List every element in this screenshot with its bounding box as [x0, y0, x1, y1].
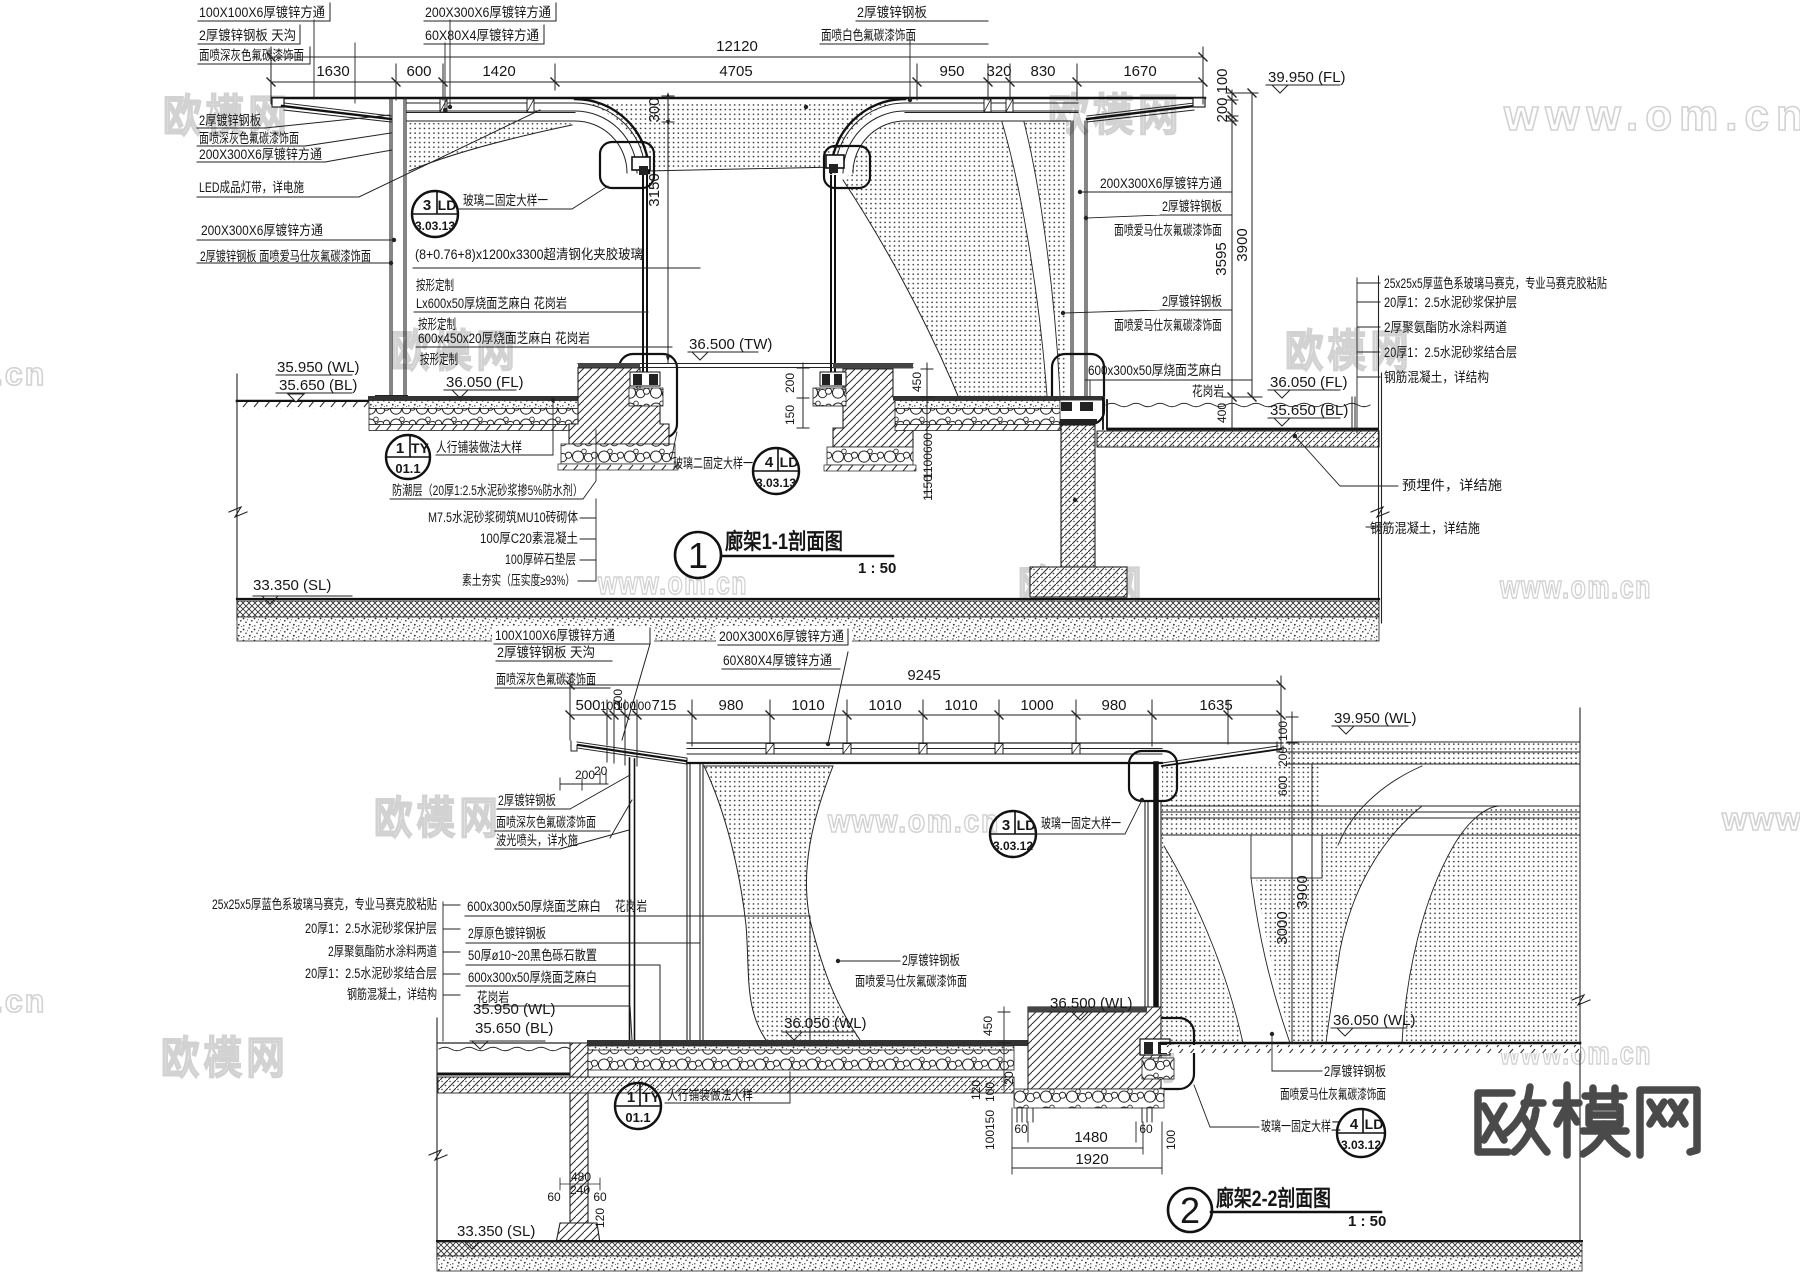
- svg-text:200X300X6厚镀锌方通: 200X300X6厚镀锌方通: [199, 146, 322, 162]
- svg-text:3.03.12: 3.03.12: [1341, 1138, 1381, 1152]
- svg-text:830: 830: [1030, 63, 1055, 80]
- svg-text:01.1: 01.1: [625, 1110, 650, 1125]
- svg-text:300: 300: [646, 97, 663, 122]
- svg-text:钢筋混凝土，详结构: 钢筋混凝土，详结构: [347, 986, 437, 1002]
- svg-text:1010: 1010: [791, 697, 824, 714]
- svg-text:200: 200: [1214, 97, 1231, 122]
- svg-text:600x300x50厚烧面芝麻白: 600x300x50厚烧面芝麻白: [467, 899, 601, 914]
- svg-text:20厚1：2.5水泥砂浆结合层: 20厚1：2.5水泥砂浆结合层: [1384, 345, 1517, 360]
- svg-text:35.650 (BL): 35.650 (BL): [279, 377, 357, 394]
- svg-text:2厚镀锌钢板: 2厚镀锌钢板: [1162, 293, 1222, 309]
- svg-text:450: 450: [981, 1016, 995, 1036]
- svg-text:450: 450: [910, 372, 924, 392]
- svg-text:钢筋混凝土，详结构: 钢筋混凝土，详结构: [1384, 369, 1489, 385]
- svg-text:按形定制: 按形定制: [420, 352, 458, 367]
- svg-text:36.050 (FL): 36.050 (FL): [1270, 374, 1348, 391]
- svg-text:50厚ø10~20黑色砾石散置: 50厚ø10~20黑色砾石散置: [468, 947, 597, 963]
- svg-text:36.050 (WL): 36.050 (WL): [1333, 1012, 1416, 1029]
- svg-text:om.cn: om.cn: [0, 983, 46, 1019]
- svg-text:3: 3: [423, 197, 431, 214]
- svg-text:花岗岩: 花岗岩: [615, 899, 647, 914]
- svg-text:玻璃二固定大样一: 玻璃二固定大样一: [673, 455, 753, 471]
- svg-text:面喷白色氟碳漆饰面: 面喷白色氟碳漆饰面: [821, 27, 916, 43]
- svg-text:1100: 1100: [921, 453, 935, 479]
- svg-text:600x300x50厚烧面芝麻白: 600x300x50厚烧面芝麻白: [468, 970, 597, 985]
- svg-text:玻璃一固定大样一: 玻璃一固定大样一: [1041, 815, 1121, 831]
- svg-text:www.om: www.om: [1721, 801, 1800, 837]
- svg-text:36.050 (WL): 36.050 (WL): [784, 1015, 867, 1032]
- svg-text:1000: 1000: [1020, 697, 1053, 714]
- svg-text:玻璃一固定大样二: 玻璃一固定大样二: [1261, 1118, 1341, 1134]
- svg-text:950: 950: [939, 63, 964, 80]
- svg-text:3150: 3150: [646, 173, 663, 206]
- svg-text:35.950 (WL): 35.950 (WL): [277, 359, 360, 376]
- svg-text:按形定制: 按形定制: [418, 317, 456, 332]
- svg-text:www.om.cn: www.om.cn: [827, 803, 1000, 839]
- svg-text:2厚镀锌钢板: 2厚镀锌钢板: [1324, 1063, 1386, 1079]
- svg-text:35.650 (BL): 35.650 (BL): [475, 1020, 553, 1037]
- svg-text:欧模网: 欧模网: [161, 1034, 289, 1083]
- svg-text:2: 2: [1180, 1190, 1200, 1231]
- svg-text:200X300X6厚镀锌方通: 200X300X6厚镀锌方通: [719, 628, 844, 644]
- svg-text:花岗岩: 花岗岩: [477, 990, 509, 1005]
- svg-text:面喷深灰色氟碳漆饰面: 面喷深灰色氟碳漆饰面: [496, 671, 596, 687]
- svg-text:TY: TY: [411, 440, 430, 456]
- svg-text:2厚聚氨酯防水涂料两道: 2厚聚氨酯防水涂料两道: [328, 944, 437, 959]
- svg-text:150: 150: [783, 405, 797, 425]
- svg-text:1: 1: [627, 1089, 635, 1106]
- svg-text:素土夯实（压实度≥93%）: 素土夯实（压实度≥93%）: [462, 573, 575, 588]
- svg-text:60: 60: [593, 1190, 607, 1204]
- svg-text:3.03.13: 3.03.13: [756, 476, 796, 490]
- svg-text:1010: 1010: [868, 697, 901, 714]
- svg-text:1920: 1920: [1075, 1151, 1108, 1168]
- svg-text:廊架2-2剖面图: 廊架2-2剖面图: [1216, 1186, 1331, 1211]
- svg-text:35.650 (BL): 35.650 (BL): [1270, 402, 1348, 419]
- svg-text:20厚1：2.5水泥砂浆保护层: 20厚1：2.5水泥砂浆保护层: [305, 921, 437, 936]
- svg-text:预埋件，详结施: 预埋件，详结施: [1402, 478, 1503, 493]
- svg-text:60: 60: [1139, 1122, 1153, 1136]
- svg-text:3.03.13: 3.03.13: [415, 219, 455, 233]
- svg-text:1480: 1480: [1074, 1129, 1107, 1146]
- svg-text:人行铺装做法大样: 人行铺装做法大样: [667, 1088, 753, 1103]
- svg-text:LED成品灯带，详电施: LED成品灯带，详电施: [199, 180, 304, 195]
- svg-text:100厚C20素混凝土: 100厚C20素混凝土: [480, 531, 578, 546]
- svg-text:100: 100: [983, 1130, 997, 1150]
- svg-text:面喷爱马仕灰氟碳漆饰面: 面喷爱马仕灰氟碳漆饰面: [855, 974, 967, 989]
- svg-text:100X100X6厚镀锌方通: 100X100X6厚镀锌方通: [495, 627, 615, 643]
- svg-text:1 : 50: 1 : 50: [1348, 1213, 1386, 1230]
- svg-text:980: 980: [718, 697, 743, 714]
- svg-text:LD: LD: [1017, 817, 1036, 833]
- svg-text:LD: LD: [1365, 1116, 1384, 1132]
- svg-text:面喷爱马仕灰氟碳漆饰面: 面喷爱马仕灰氟碳漆饰面: [1280, 1087, 1386, 1102]
- svg-text:240: 240: [570, 1183, 590, 1197]
- svg-text:200: 200: [575, 768, 595, 782]
- svg-text:玻璃二固定大样一: 玻璃二固定大样一: [463, 192, 548, 208]
- svg-text:3.03.12: 3.03.12: [993, 839, 1033, 853]
- svg-text:3900: 3900: [1234, 228, 1251, 261]
- svg-text:200X300X6厚镀锌方通: 200X300X6厚镀锌方通: [201, 222, 323, 238]
- svg-text:39.950 (WL): 39.950 (WL): [1334, 710, 1417, 727]
- svg-text:面喷深灰色氟碳漆饰面: 面喷深灰色氟碳漆饰面: [199, 130, 299, 146]
- svg-text:33.350 (SL): 33.350 (SL): [253, 577, 331, 594]
- svg-text:39.950 (FL): 39.950 (FL): [1268, 69, 1346, 86]
- svg-text:3000: 3000: [1274, 911, 1291, 944]
- svg-text:01.1: 01.1: [395, 461, 420, 476]
- svg-text:60: 60: [547, 1190, 561, 1204]
- svg-text:4: 4: [1350, 1116, 1359, 1133]
- svg-text:面喷爱马仕灰氟碳漆饰面: 面喷爱马仕灰氟碳漆饰面: [1114, 223, 1222, 238]
- svg-text:200X300X6厚镀锌方通: 200X300X6厚镀锌方通: [425, 4, 551, 20]
- svg-text:3: 3: [1002, 817, 1010, 834]
- svg-text:防潮层（20厚1:2.5水泥砂浆掺5%防水剂）: 防潮层（20厚1:2.5水泥砂浆掺5%防水剂）: [392, 483, 583, 498]
- svg-text:500: 500: [575, 697, 600, 714]
- svg-text:4: 4: [765, 454, 774, 471]
- svg-text:9245: 9245: [907, 667, 940, 684]
- svg-text:2厚聚氨酯防水涂料两道: 2厚聚氨酯防水涂料两道: [1384, 320, 1507, 335]
- svg-text:人行铺装做法大样: 人行铺装做法大样: [436, 440, 522, 455]
- svg-text:20: 20: [1002, 1071, 1016, 1085]
- svg-text:1: 1: [688, 535, 708, 576]
- svg-text:200: 200: [1276, 747, 1290, 767]
- svg-text:33.350 (SL): 33.350 (SL): [457, 1223, 535, 1240]
- svg-text:600: 600: [1276, 776, 1290, 796]
- svg-text:100: 100: [983, 1082, 997, 1102]
- svg-text:200: 200: [783, 373, 797, 393]
- svg-text:Lx600x50厚烧面芝麻白 花岗岩: Lx600x50厚烧面芝麻白 花岗岩: [416, 296, 567, 311]
- svg-text:M7.5水泥砂浆砌筑MU10砖砌体: M7.5水泥砂浆砌筑MU10砖砌体: [428, 510, 578, 525]
- svg-text:100: 100: [1164, 1130, 1178, 1150]
- svg-text:按形定制: 按形定制: [416, 278, 454, 293]
- svg-text:400: 400: [1215, 403, 1229, 423]
- svg-text:600: 600: [406, 63, 431, 80]
- svg-text:600x450x20厚烧面芝麻白 花岗岩: 600x450x20厚烧面芝麻白 花岗岩: [418, 331, 590, 346]
- svg-text:1670: 1670: [1123, 63, 1156, 80]
- svg-text:100厚碎石垫层: 100厚碎石垫层: [505, 552, 576, 567]
- svg-text:480: 480: [571, 1170, 591, 1184]
- svg-text:120: 120: [969, 1080, 983, 1100]
- svg-text:100: 100: [1276, 721, 1290, 741]
- svg-text:12120: 12120: [716, 38, 758, 55]
- svg-text:(8+0.76+8)x1200x3300超清钢化夹胶玻璃: (8+0.76+8)x1200x3300超清钢化夹胶玻璃: [415, 246, 643, 262]
- svg-text:www.om.cn: www.om.cn: [1503, 91, 1800, 140]
- svg-text:1630: 1630: [316, 63, 349, 80]
- svg-text:36.500 (WL): 36.500 (WL): [1050, 995, 1133, 1012]
- svg-text:2厚镀锌钢板: 2厚镀锌钢板: [199, 112, 261, 128]
- svg-text:www.om.cn: www.om.cn: [597, 565, 748, 601]
- svg-text:60X80X4厚镀锌方通: 60X80X4厚镀锌方通: [723, 652, 832, 668]
- svg-text:www.om.cn: www.om.cn: [1499, 569, 1652, 605]
- svg-text:4705: 4705: [719, 63, 752, 80]
- svg-text:715: 715: [651, 697, 676, 714]
- svg-text:1010: 1010: [944, 697, 977, 714]
- svg-text:36.050 (FL): 36.050 (FL): [446, 374, 524, 391]
- svg-text:3595: 3595: [1213, 242, 1230, 275]
- svg-text:120: 120: [593, 1208, 607, 1228]
- svg-text:TY: TY: [642, 1089, 661, 1105]
- svg-text:60X80X4厚镀锌方通: 60X80X4厚镀锌方通: [425, 27, 539, 43]
- svg-text:2厚镀锌钢板 面喷爱马仕灰氟碳漆饰面: 2厚镀锌钢板 面喷爱马仕灰氟碳漆饰面: [200, 248, 371, 264]
- svg-text:100: 100: [631, 699, 651, 713]
- svg-text:25x25x5厚蓝色系玻璃马赛克，专业马赛克胶粘贴: 25x25x5厚蓝色系玻璃马赛克，专业马赛克胶粘贴: [212, 896, 437, 912]
- svg-text:面喷深灰色氟碳漆饰面: 面喷深灰色氟碳漆饰面: [496, 814, 596, 830]
- svg-text:波光喷头，详水施: 波光喷头，详水施: [496, 833, 578, 848]
- svg-text:20厚1：2.5水泥砂浆结合层: 20厚1：2.5水泥砂浆结合层: [305, 966, 437, 981]
- svg-text:LD: LD: [780, 454, 799, 470]
- svg-text:2厚镀锌钢板: 2厚镀锌钢板: [498, 792, 556, 808]
- svg-text:150: 150: [983, 1110, 997, 1130]
- svg-text:花岗岩: 花岗岩: [1192, 384, 1224, 399]
- svg-text:1 : 50: 1 : 50: [858, 560, 896, 577]
- svg-text:2厚镀锌钢板: 2厚镀锌钢板: [857, 4, 927, 20]
- svg-text:2厚镀锌钢板: 2厚镀锌钢板: [1162, 198, 1222, 214]
- svg-text:20厚1：2.5水泥砂浆保护层: 20厚1：2.5水泥砂浆保护层: [1384, 295, 1517, 310]
- svg-text:2厚镀锌钢板 天沟: 2厚镀锌钢板 天沟: [497, 644, 595, 660]
- svg-text:200X300X6厚镀锌方通: 200X300X6厚镀锌方通: [1100, 175, 1222, 191]
- svg-text:面喷爱马仕灰氟碳漆饰面: 面喷爱马仕灰氟碳漆饰面: [1114, 318, 1222, 333]
- svg-text:1635: 1635: [1199, 697, 1232, 714]
- svg-text:980: 980: [1101, 697, 1126, 714]
- svg-text:36.500 (TW): 36.500 (TW): [689, 336, 772, 353]
- svg-text:600: 600: [921, 433, 935, 453]
- svg-text:1: 1: [396, 440, 404, 457]
- svg-text:3900: 3900: [1294, 875, 1311, 908]
- svg-text:320: 320: [986, 63, 1011, 80]
- svg-text:om.cn: om.cn: [0, 356, 46, 392]
- svg-text:100X100X6厚镀锌方通: 100X100X6厚镀锌方通: [199, 4, 325, 20]
- svg-text:LD: LD: [438, 197, 457, 213]
- svg-text:2厚镀锌钢板: 2厚镀锌钢板: [902, 952, 960, 968]
- svg-text:欧模网: 欧模网: [374, 794, 502, 843]
- svg-text:廊架1-1剖面图: 廊架1-1剖面图: [725, 529, 843, 554]
- svg-text:100: 100: [1214, 68, 1231, 93]
- svg-text:2厚镀锌钢板 天沟: 2厚镀锌钢板 天沟: [199, 27, 296, 43]
- svg-text:1150: 1150: [921, 475, 935, 501]
- svg-text:面喷深灰色氟碳漆饰面: 面喷深灰色氟碳漆饰面: [199, 47, 304, 63]
- svg-text:1420: 1420: [482, 63, 515, 80]
- svg-text:钢筋混凝土，详结施: 钢筋混凝土，详结施: [1370, 520, 1480, 536]
- svg-text:2厚原色镀锌钢板: 2厚原色镀锌钢板: [468, 925, 546, 941]
- svg-text:60: 60: [1014, 1122, 1028, 1136]
- svg-text:25x25x5厚蓝色系玻璃马赛克，专业马赛克胶粘贴: 25x25x5厚蓝色系玻璃马赛克，专业马赛克胶粘贴: [1384, 275, 1607, 291]
- svg-text:600x300x50厚烧面芝麻白: 600x300x50厚烧面芝麻白: [1088, 363, 1222, 378]
